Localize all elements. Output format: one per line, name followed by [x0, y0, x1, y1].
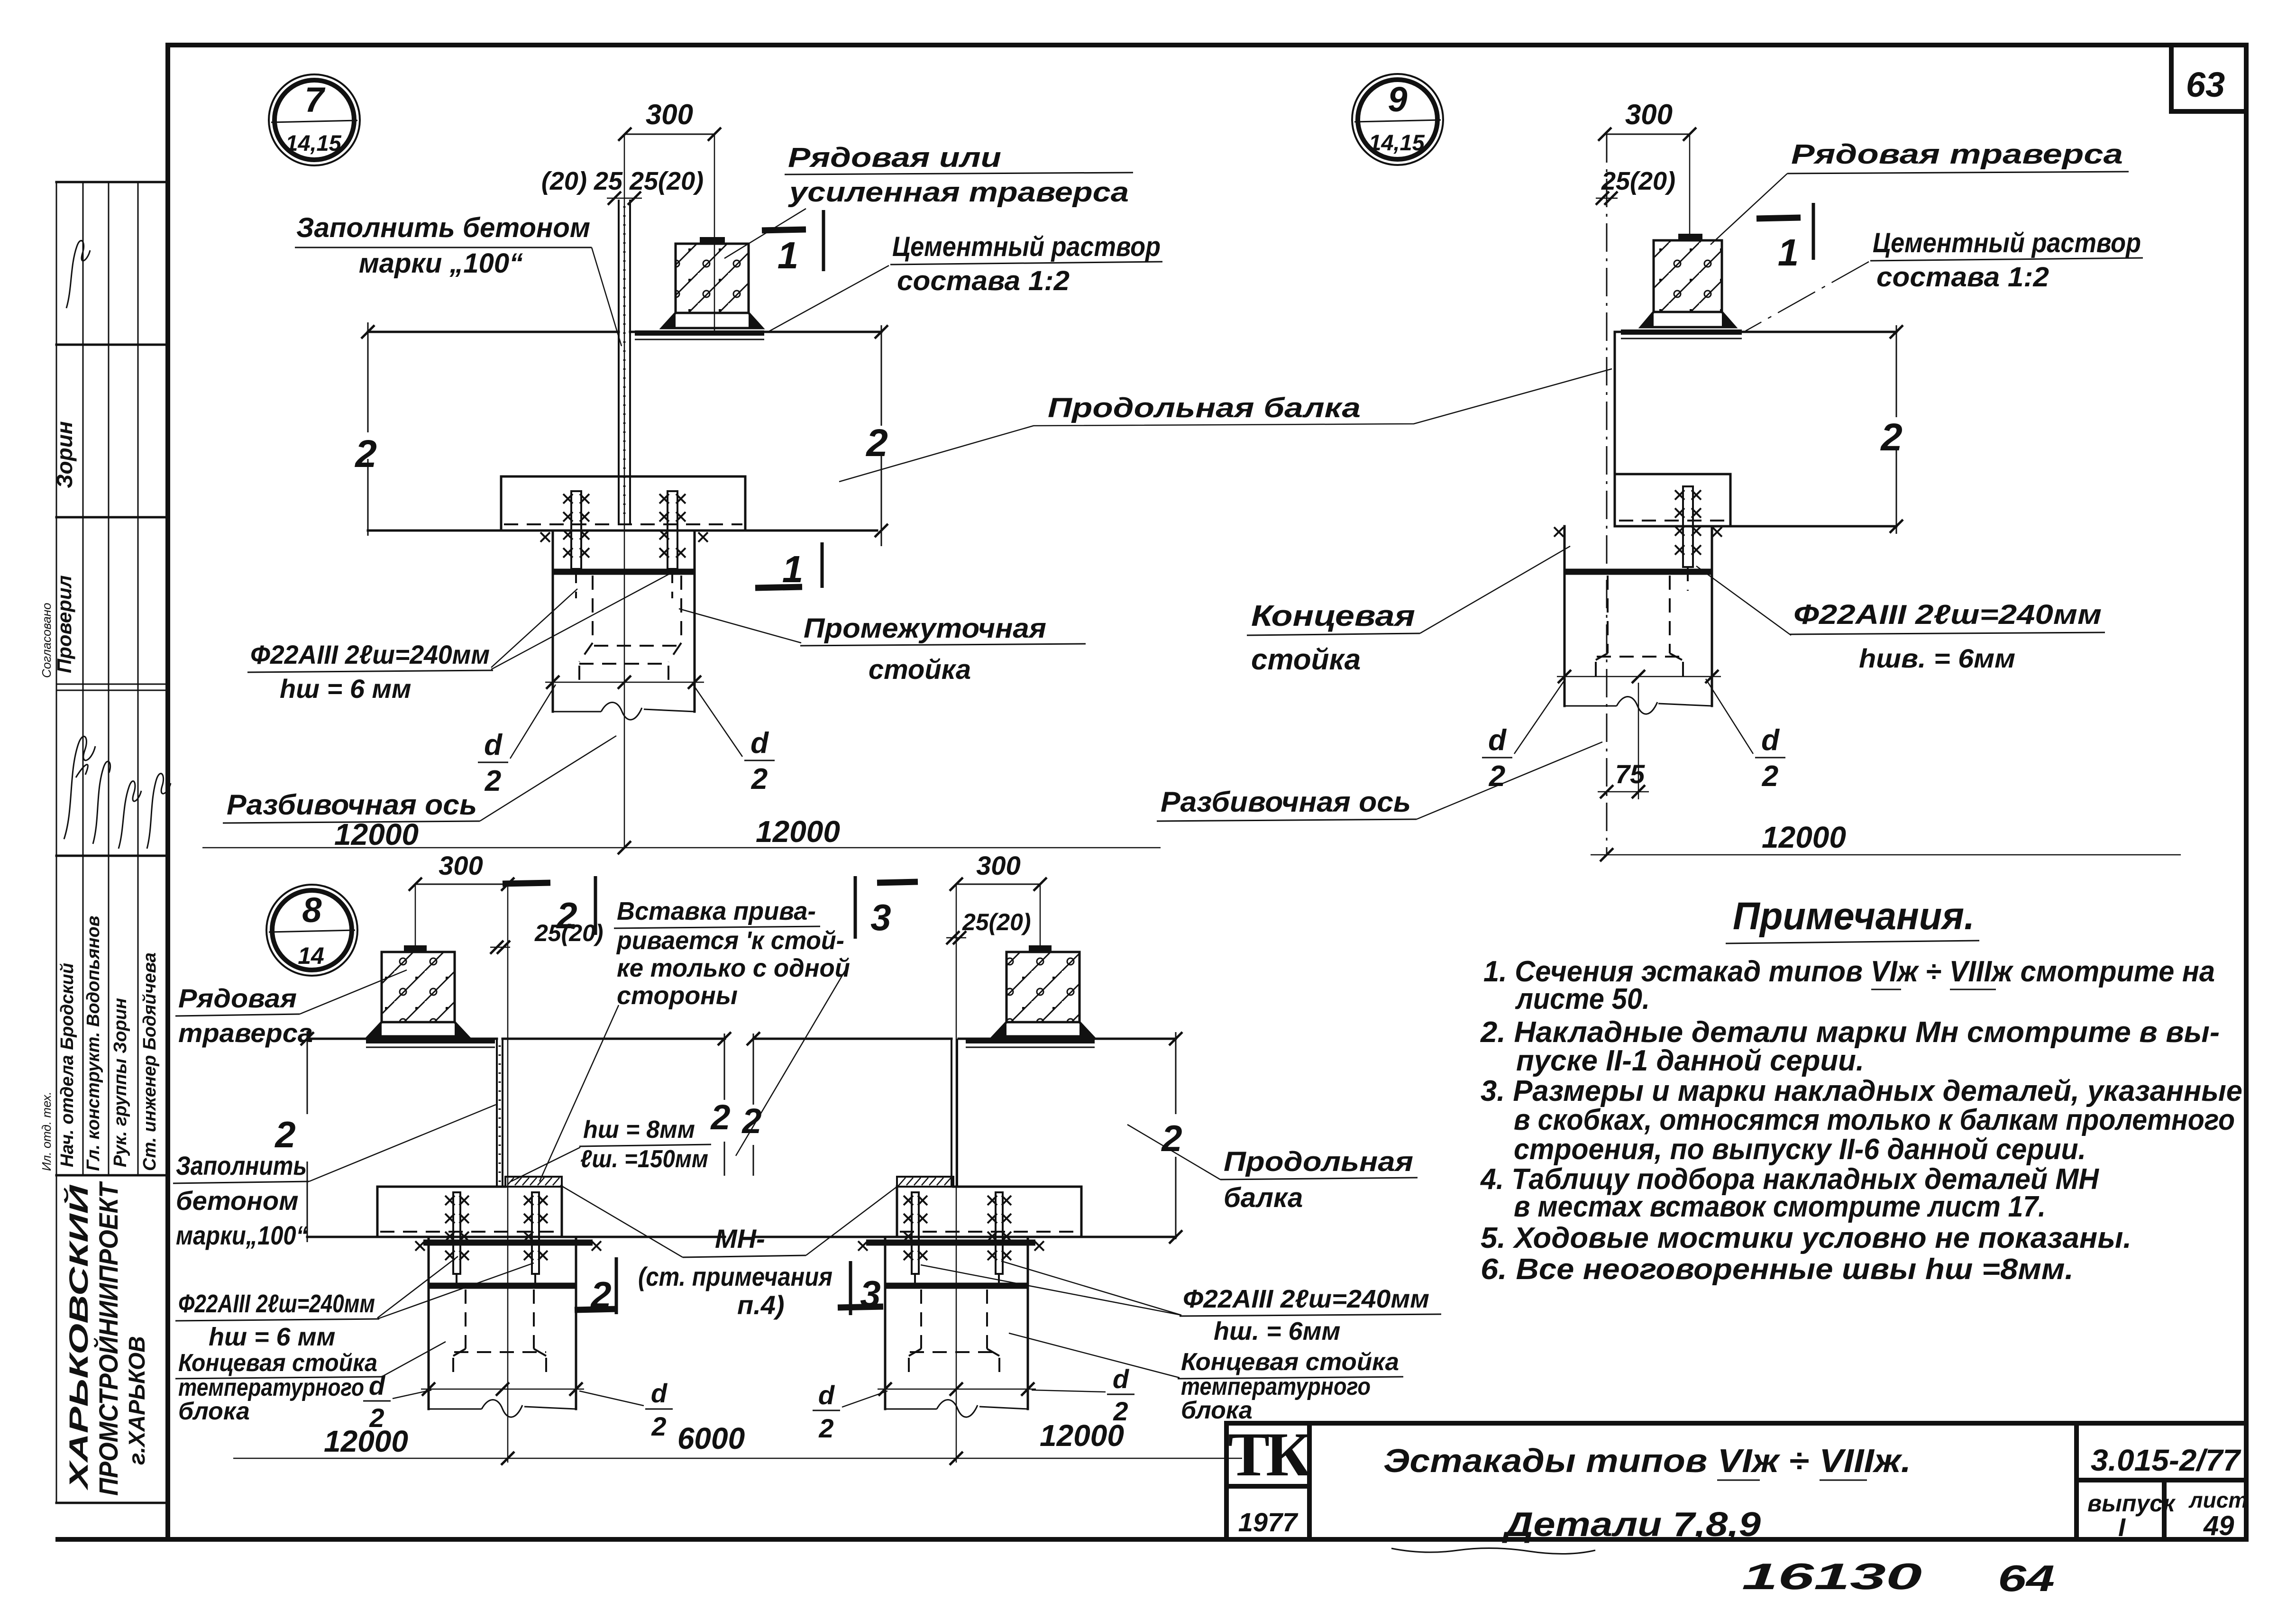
svg-text:Вставка прива-: Вставка прива- — [617, 897, 816, 925]
svg-text:3: 3 — [870, 897, 891, 938]
TK cell divider — [1226, 1484, 1309, 1489]
d/2 label right (detail 9) — [1706, 679, 1785, 793]
stamp column divider x229 — [108, 182, 110, 1175]
svg-text:в местах вставок смотрите лист: в местах вставок смотрите лист 17. — [1514, 1190, 2046, 1223]
dimension 25(20) (detail 8 right) — [946, 909, 1031, 944]
crossarm (detail 8 left) — [377, 1187, 562, 1237]
svg-text:16130: 16130 — [1742, 1555, 1922, 1597]
svg-text:2: 2 — [485, 765, 501, 797]
anchor bolt (detail 9) — [1675, 486, 1701, 591]
svg-text:Рядовая траверса: Рядовая траверса — [1791, 139, 2123, 170]
label: Заполнить бетоном марки 100 (detail 8) — [173, 1105, 496, 1250]
column width dimension line (detail 7) — [545, 676, 704, 689]
svg-text:2: 2 — [710, 1098, 730, 1137]
concrete stub block (detail 9) — [1641, 234, 1735, 327]
svg-text:стойка: стойка — [869, 654, 971, 685]
svg-text:75: 75 — [1615, 759, 1645, 789]
svg-text:строения, по выпуску II-6 данн: строения, по выпуску II-6 данной серии. — [1514, 1133, 2086, 1166]
section mark 1 (bottom, detail 7) — [755, 542, 822, 590]
TK cell right edge — [1307, 1423, 1312, 1539]
svg-text:Согласовано: Согласовано — [39, 603, 54, 678]
section mark 1 (top, detail 7) — [762, 210, 823, 276]
svg-text:I: I — [2118, 1513, 2126, 1542]
bearing plate under block (detail 8 left) — [366, 1038, 495, 1047]
bottom dimension line 12000/6000/12000 (detail 8) — [233, 1418, 1242, 1465]
svg-text:ке только с одной: ке только с одной — [617, 954, 850, 982]
svg-text:траверса: траверса — [178, 1018, 313, 1048]
MN plate on crossarm (detail 8 left) — [505, 1177, 562, 1187]
stamp signature row1 squiggle — [66, 241, 90, 308]
svg-text:Зорин: Зорин — [52, 421, 77, 488]
detail 8 marker circle — [266, 885, 357, 976]
stamp row double line y1445 — [56, 684, 167, 690]
svg-text:300: 300 — [439, 851, 483, 880]
svg-text:ПРОМСТРОЙНИИПРОЕКТ: ПРОМСТРОЙНИИПРОЕКТ — [93, 1181, 123, 1496]
svg-text:3.015-2/77: 3.015-2/77 — [2091, 1443, 2242, 1477]
svg-text:в скобках, относятся только к: в скобках, относятся только к балкам про… — [1514, 1104, 2235, 1136]
beam right end with section-2 cut (detail 8) — [1161, 1032, 1182, 1244]
svg-text:Гл. конструкт. Водопьянов: Гл. конструкт. Водопьянов — [83, 915, 103, 1171]
d/2 label left (detail 9) — [1482, 679, 1565, 793]
label: Рядовая траверса (detail 8) — [175, 970, 407, 1048]
insert plate (detail 8 right) — [951, 1039, 957, 1187]
crossarm (traversa) under beam (detail 7) — [501, 476, 745, 531]
stamp bottom line y3170 — [56, 1502, 167, 1504]
svg-text:стороны: стороны — [617, 981, 738, 1010]
svg-text:Нач. отдела Бродский: Нач. отдела Бродский — [57, 963, 77, 1167]
svg-text:Цементный раствор: Цементный раствор — [1873, 228, 2141, 258]
label: Рядовая или усиленная траверса — [724, 142, 1133, 258]
svg-text:Ф22АΙΙΙ 2ℓш=240мм: Ф22АΙΙΙ 2ℓш=240мм — [178, 1290, 375, 1318]
svg-text:Детали 7,8,9: Детали 7,8,9 — [1501, 1506, 1761, 1544]
svg-text:14,15: 14,15 — [285, 130, 341, 156]
left stamp column outer line — [56, 182, 57, 1503]
bottom dimension 12000 (detail 9) — [1591, 820, 2181, 861]
page number box top right — [2171, 45, 2246, 111]
label: Цементный раствор состава 1:2 — [768, 231, 1162, 332]
detail 7 axis line — [624, 134, 625, 848]
svg-text:300: 300 — [976, 851, 1020, 880]
svg-text:2: 2 — [354, 432, 377, 476]
head weld marks (detail 8 left) — [415, 1241, 425, 1251]
svg-text:Ф22АΙΙΙ 2ℓш=240мм: Ф22АΙΙΙ 2ℓш=240мм — [1183, 1285, 1429, 1313]
svg-text:14: 14 — [298, 942, 324, 969]
svg-text:25(20): 25(20) — [962, 909, 1031, 935]
label: Ф22АШ 2lш=240мм hш=6мм (detail 7) — [247, 570, 677, 704]
svg-text:п.4): п.4) — [737, 1290, 785, 1320]
svg-text:состава 1:2: состава 1:2 — [1876, 262, 2049, 293]
stamp row line y727 — [56, 344, 167, 346]
svg-text:состава 1:2: состава 1:2 — [897, 265, 1070, 296]
concrete stub block (detail 8 left) — [368, 945, 468, 1036]
svg-text:Рук. группы Зорин: Рук. группы Зорин — [110, 998, 130, 1167]
stamp row line y2479 — [56, 1174, 167, 1177]
svg-text:ривается 'к стой-: ривается 'к стой- — [616, 926, 844, 955]
svg-text:2: 2 — [1880, 416, 1903, 459]
svg-text:усиленная траверса: усиленная траверса — [787, 177, 1129, 208]
title vypusk/list divider — [2162, 1480, 2167, 1539]
svg-text:hш = 6 мм: hш = 6 мм — [280, 674, 411, 704]
dimension 300 (detail 7) — [618, 99, 721, 332]
detail 9 marker circle — [1352, 74, 1443, 165]
svg-text:2: 2 — [1161, 1117, 1182, 1159]
svg-text:2: 2 — [741, 1101, 761, 1141]
svg-text:12000: 12000 — [334, 817, 419, 851]
underline VI — [1717, 1480, 1760, 1481]
svg-text:выпуск: выпуск — [2087, 1490, 2176, 1517]
svg-text:марки „100“: марки „100“ — [359, 248, 523, 279]
label: hш=8мм lш=150мм (detail 8) — [511, 1116, 711, 1181]
d/2 labels (detail 8 left) — [363, 1371, 673, 1441]
section mark 3 (bottom) — [838, 1261, 883, 1315]
d/2 label right (detail 7) — [693, 685, 775, 796]
svg-text:лист: лист — [2188, 1488, 2248, 1512]
svg-text:Эстакады типов VIж ÷ VIIIж: Эстакады типов VIж ÷ VIIIж. — [1383, 1442, 1911, 1479]
note: Вставка приваривается к стойке только с одной стороны — [540, 897, 850, 1181]
detail 9 axis line (dash-dot) — [1606, 134, 1608, 855]
svg-text:стойка: стойка — [1251, 643, 1361, 676]
svg-text:hш = 8мм: hш = 8мм — [583, 1116, 695, 1144]
crossarm (detail 8 right) — [897, 1187, 1081, 1237]
svg-text:Рядовая: Рядовая — [178, 983, 297, 1013]
label: Концевая стойка (detail 9) — [1247, 546, 1570, 676]
beam bottom line (detail 9) — [1615, 525, 1896, 528]
svg-text:25(20): 25(20) — [1601, 167, 1675, 195]
detail 7 marker circle — [269, 74, 360, 165]
svg-text:Примечания.: Примечания. — [1733, 895, 1975, 938]
beam left end with section-2 cut (detail 8) — [274, 1031, 314, 1242]
svg-text:2: 2 — [556, 895, 577, 936]
svg-text:2: 2 — [751, 763, 768, 796]
column width dimension (detail 8 right) — [878, 1382, 1036, 1396]
svg-text:14,15: 14,15 — [1369, 130, 1425, 155]
label: Концевая стойка температурного блока (right) — [1009, 1333, 1403, 1424]
detail 8 left axis line — [507, 884, 509, 1463]
dimension 300 (detail 9) — [1598, 99, 1696, 236]
crossarm (detail 9) — [1616, 474, 1730, 526]
frame bottom extension under stamp — [58, 1537, 171, 1542]
title block left edge — [1224, 1423, 1229, 1539]
svg-text:d: d — [651, 1378, 668, 1408]
svg-text:листе 50.: листе 50. — [1515, 983, 1650, 1015]
note 3 — [1481, 1075, 2242, 1166]
svg-text:hшв. = 6мм: hшв. = 6мм — [1859, 643, 2015, 673]
column width dimension (detail 8 left) — [421, 1382, 584, 1396]
end column (detail 8 left) — [429, 1237, 576, 1409]
column head weld marks (detail 9) — [1554, 527, 1564, 537]
dimension 25(20) (detail 8 left) — [490, 920, 604, 954]
stamp row line y1805 — [56, 855, 167, 857]
svg-text:d: d — [369, 1371, 386, 1400]
column bottom break (detail 9) — [1564, 697, 1712, 714]
svg-text:пуске II-1 данной серии.: пуске II-1 данной серии. — [1516, 1044, 1864, 1077]
beam top line left span (detail 8) — [307, 1038, 725, 1040]
svg-text:(20) 25 25(20): (20) 25 25(20) — [541, 167, 704, 195]
dimension 75 (detail 9) — [1598, 683, 1649, 799]
stamp signatures row squiggles — [64, 736, 95, 839]
label: Продольная балка (detail 8) — [1127, 1125, 1418, 1213]
bearing plate under block (detail 7) — [635, 330, 764, 339]
svg-text:hш. = 6мм: hш. = 6мм — [1214, 1317, 1340, 1345]
svg-text:2: 2 — [865, 421, 888, 465]
svg-text:Промежуточная: Промежуточная — [804, 613, 1046, 644]
svg-text:1: 1 — [778, 234, 799, 276]
svg-text:(ст. примечания: (ст. примечания — [638, 1262, 832, 1291]
end column (detail 8 right) — [885, 1237, 1028, 1409]
svg-text:2: 2 — [818, 1413, 833, 1443]
svg-text:блока: блока — [178, 1398, 250, 1425]
svg-text:Продольная балка: Продольная балка — [1048, 393, 1361, 423]
svg-text:6000: 6000 — [677, 1421, 745, 1455]
beam middle break right (detail 8) — [741, 1032, 761, 1176]
concrete stub block (detail 8 right) — [993, 945, 1093, 1036]
column width dimension (detail 9) — [1557, 670, 1721, 683]
svg-text:блока: блока — [1181, 1397, 1253, 1424]
insert plate between beams (detail 7) — [619, 200, 630, 525]
flourish under Детали 7,8,9 — [1391, 1548, 1595, 1554]
beam middle break left (detail 8) — [710, 1032, 731, 1176]
svg-text:1: 1 — [1778, 231, 1799, 274]
underline VIII — [1820, 1480, 1867, 1481]
svg-text:Концевая стойка: Концевая стойка — [178, 1349, 377, 1377]
note 2 — [1480, 1016, 2220, 1077]
label: Разбивочная ось (detail 7) — [223, 736, 616, 823]
anchor bolts (detail 8 right) — [904, 1192, 1011, 1294]
end column (концевая стойка) detail 9 — [1564, 526, 1712, 706]
svg-text:49: 49 — [2203, 1510, 2234, 1541]
svg-text:Ф22АΙΙΙ 2ℓш=240мм: Ф22АΙΙΙ 2ℓш=240мм — [1793, 599, 2102, 630]
svg-text:64: 64 — [1998, 1557, 2055, 1599]
svg-text:1977: 1977 — [1238, 1507, 1299, 1537]
svg-text:8: 8 — [302, 890, 322, 930]
beam bottom line right span (detail 8) — [753, 1236, 1176, 1238]
dimension (20) 25 25 (20) (detail 7) — [541, 167, 704, 205]
anchor bolts (detail 8 left) — [445, 1192, 548, 1294]
bearing plate under block (detail 8 right) — [966, 1038, 1095, 1047]
beam bottom line left span (detail 8) — [307, 1236, 725, 1238]
label: Ф22АШ 2lш=240мм hшв=6мм (detail 9) — [1696, 566, 2105, 673]
beam right end extension with section-2 cut (detail 9) — [1880, 325, 1903, 534]
svg-text:12000: 12000 — [1040, 1418, 1124, 1453]
svg-text:Концевая стойка: Концевая стойка — [1181, 1348, 1399, 1376]
svg-text:d: d — [484, 729, 503, 761]
svg-text:300: 300 — [1625, 99, 1673, 130]
svg-text:3. Размеры и марки накладных д: 3. Размеры и марки накладных деталей, ук… — [1481, 1075, 2242, 1107]
d/2 labels (detail 8 right) — [813, 1364, 1134, 1443]
svg-text:300: 300 — [646, 99, 693, 130]
svg-text:Разбивочная ось: Разбивочная ось — [227, 789, 477, 821]
column head weld marks (detail 7) — [540, 532, 550, 542]
svg-text:ТК: ТК — [1228, 1419, 1311, 1489]
beam top line right span (detail 8) — [753, 1038, 1176, 1040]
beam top line (detail 7) — [368, 331, 881, 333]
svg-text:марки„100“: марки„100“ — [176, 1220, 308, 1250]
head weld marks (detail 8 right) — [858, 1241, 868, 1251]
svg-text:ℓш. =150мм: ℓш. =150мм — [580, 1145, 708, 1173]
column (промежуточная стойка) detail 7 — [553, 531, 695, 712]
svg-text:Ф22АΙΙΙ 2ℓш=240мм: Ф22АΙΙΙ 2ℓш=240мм — [250, 640, 490, 669]
section mark 2 (bottom) — [575, 1257, 617, 1316]
label: Ф22АШ 2lш=240мм hш=6мм (detail 8 right) — [921, 1261, 1441, 1345]
svg-text:ХАРЬКОВСКИЙ: ХАРЬКОВСКИЙ — [64, 1184, 93, 1491]
note 1 — [1483, 955, 2215, 1015]
svg-text:7: 7 — [304, 80, 326, 119]
label: Цементный раствор состава 1:2 (detail 9) — [1746, 228, 2143, 331]
svg-text:9: 9 — [1388, 80, 1407, 119]
svg-text:d: d — [1488, 724, 1507, 757]
anchor bolt left (detail 7) — [563, 491, 589, 598]
title cell divider right — [2074, 1423, 2079, 1539]
label: Рядовая траверса (detail 9) — [1711, 139, 2129, 245]
svg-text:12000: 12000 — [1762, 820, 1846, 854]
svg-text:hш = 6 мм: hш = 6 мм — [209, 1323, 335, 1351]
label: Разбивочная ось (detail 9) — [1157, 742, 1602, 821]
svg-text:6. Все неоговоренные швы hш =8: 6. Все неоговоренные швы hш =8мм. — [1481, 1253, 2074, 1286]
label: Продольная балка (between details) — [839, 369, 1612, 482]
svg-text:2: 2 — [651, 1411, 666, 1441]
section mark 1 (top, detail 9) — [1756, 203, 1813, 274]
label: Ф22АШ 2lш=240мм hш=6мм (detail 8 left) — [175, 1256, 534, 1351]
bearing plate under block (detail 9) — [1621, 329, 1742, 338]
svg-text:d: d — [1113, 1364, 1130, 1394]
svg-text:Цементный раствор: Цементный раствор — [892, 231, 1161, 262]
section mark 2 (top) — [503, 876, 595, 936]
beam top line (detail 9) — [1615, 331, 1896, 333]
svg-text:d: d — [750, 727, 769, 759]
column bottom break (detail 7) — [553, 703, 695, 720]
svg-text:Заполнить бетоном: Заполнить бетоном — [296, 212, 590, 243]
column bottom break (detail 8 right) — [885, 1400, 1028, 1418]
svg-text:Проверил: Проверил — [53, 575, 75, 673]
svg-text:Концевая: Концевая — [1251, 600, 1415, 632]
svg-text:Продольная: Продольная — [1224, 1146, 1413, 1177]
svg-text:12000: 12000 — [756, 814, 840, 849]
head plate (detail 8 right) — [866, 1240, 1035, 1246]
dimension 25(20) (detail 9) — [1596, 167, 1675, 205]
detail 8 right axis line — [956, 884, 957, 1463]
insert plate (detail 8 left) — [497, 1039, 503, 1187]
svg-text:2. Накладные детали марки Мн: 2. Накладные детали марки Мн смотрите в … — [1480, 1016, 2220, 1049]
svg-text:Заполнить: Заполнить — [176, 1151, 307, 1180]
svg-text:Ил. отд. тех.: Ил. отд. тех. — [39, 1091, 54, 1171]
svg-text:Разбивочная ось: Разбивочная ось — [1161, 786, 1411, 818]
title right divider horizontal — [2076, 1478, 2246, 1482]
section mark 3 (top) — [855, 876, 918, 939]
beam bottom line (detail 7) — [368, 530, 877, 532]
svg-text:бетоном: бетоном — [176, 1186, 299, 1216]
head plate (detail 8 left) — [423, 1240, 593, 1246]
svg-text:Рядовая или: Рядовая или — [788, 142, 1001, 173]
label: МН (ст.примечания п.4) — [560, 1185, 899, 1320]
svg-text:г.ХАРЬКОВ: г.ХАРЬКОВ — [125, 1336, 150, 1465]
stamp row line y384 — [56, 181, 167, 183]
stamp row line y1091 — [56, 516, 167, 519]
title block outer top line — [1226, 1421, 2246, 1426]
beam left edge with section-2 cut (detail 7) — [354, 322, 377, 536]
label: Заполнить бетоном марки 100 — [295, 212, 622, 346]
d/2 label left (detail 7) — [478, 685, 556, 797]
MN plate on crossarm (detail 8 right) — [897, 1177, 953, 1187]
column bottom break (detail 8 left) — [429, 1400, 576, 1418]
dimension 300 (detail 8 left) — [409, 851, 514, 951]
svg-text:63: 63 — [2186, 65, 2225, 104]
dimension 300 (detail 8 right) — [950, 851, 1047, 951]
concrete stub block (detail 7) — [662, 237, 762, 328]
svg-text:d: d — [818, 1380, 835, 1410]
svg-text:Ст. инженер Бодяйчева: Ст. инженер Бодяйчева — [140, 952, 160, 1171]
svg-text:балка: балка — [1224, 1182, 1303, 1213]
bottom dimension line 12000/12000 (detail 7) — [202, 814, 1161, 854]
svg-text:1: 1 — [782, 548, 804, 590]
svg-text:12000: 12000 — [324, 1424, 408, 1458]
svg-text:5. Ходовые мостики условно не: 5. Ходовые мостики условно не показаны. — [1481, 1222, 2131, 1254]
svg-text:2: 2 — [1762, 760, 1778, 793]
beam left edge (detail 9) — [1614, 332, 1616, 526]
svg-text:d: d — [1761, 724, 1780, 757]
anchor bolt right (detail 7) — [659, 491, 686, 598]
stamp column divider x175 — [82, 182, 84, 1175]
notes heading — [1726, 895, 1979, 943]
svg-text:МН-: МН- — [715, 1224, 765, 1253]
label: Промежуточная стойка — [679, 609, 1086, 685]
stamp column divider x291 — [137, 182, 139, 1175]
label: Концевая стойка температурного блока (left) — [175, 1342, 446, 1425]
note 4 — [1480, 1163, 2099, 1223]
beam right end extension with section-2 cut (detail 7) — [865, 325, 888, 546]
svg-text:2: 2 — [274, 1114, 295, 1155]
